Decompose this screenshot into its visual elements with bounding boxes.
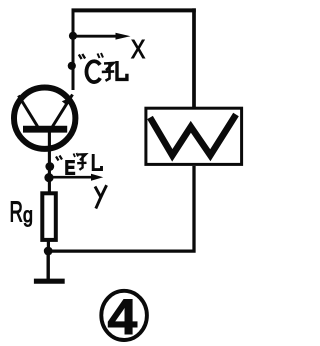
figure number circle 4 — [101, 291, 147, 340]
wire: base lead down from bar — [48, 130, 51, 192]
wire: X arrow line — [74, 35, 120, 38]
ground bar — [34, 279, 65, 284]
label "C" hole : character kong (hole) — [102, 61, 127, 81]
label "E" hole : open quote — [56, 156, 62, 161]
label "E" hole : character kong (hole) — [77, 154, 101, 170]
svg-text:4: 4 — [108, 289, 138, 345]
node ground junction dot — [44, 247, 53, 256]
node C hole junction dot — [68, 62, 76, 70]
label Y — [95, 187, 101, 198]
transistor: emitter diagonal (left) — [19, 96, 38, 127]
transistor: body circle — [14, 88, 75, 149]
wire: top loop from collector node up, across, and down to box — [72, 12, 75, 90]
svg-text:R: R — [10, 197, 23, 229]
ground lead — [47, 251, 50, 281]
transistor: base bar — [23, 126, 67, 133]
Y arrow head — [91, 174, 103, 181]
svg-text:g: g — [23, 204, 33, 228]
transistor: collector arrowhead — [62, 98, 71, 106]
wire: resistor bottom to ground node — [47, 241, 50, 252]
svg-text:E: E — [65, 156, 76, 179]
wire: Y arrow line — [50, 176, 92, 179]
X arrow head — [116, 33, 131, 40]
node E hole junction dot upper — [45, 162, 54, 171]
meter W box — [146, 108, 242, 164]
resistor Rg body — [42, 193, 56, 240]
wire: top horizontal run — [72, 8, 196, 12]
label "E" hole : close quote — [74, 153, 79, 157]
wire: bottom return from node to box — [48, 166, 194, 251]
node E hole junction dot lower — [44, 173, 53, 182]
wire: right vertical down to box — [192, 8, 196, 107]
svg-text:X: X — [131, 35, 145, 65]
node X junction dot — [69, 32, 77, 40]
meter W symbol — [150, 115, 236, 156]
label "C" hole : letter C — [86, 61, 100, 82]
label "C" hole : close quote — [98, 53, 104, 58]
label "C" hole : open quote — [79, 54, 85, 59]
transistor: collector diagonal with arrow (right) — [53, 95, 73, 127]
